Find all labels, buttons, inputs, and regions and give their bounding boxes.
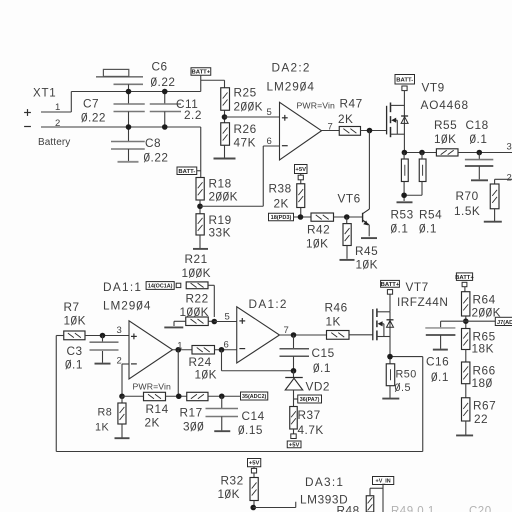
svg-text:10K: 10K — [306, 237, 329, 251]
svg-text:BATT+: BATT+ — [455, 275, 474, 281]
svg-text:VT7: VT7 — [406, 280, 429, 294]
svg-text:R22: R22 — [186, 292, 209, 306]
svg-text:1K: 1K — [95, 422, 110, 434]
svg-text:10K: 10K — [356, 258, 379, 272]
svg-text:10K: 10K — [218, 487, 241, 501]
svg-text:10K: 10K — [64, 314, 87, 328]
svg-text:1: 1 — [177, 340, 182, 351]
svg-text:LM2904: LM2904 — [103, 299, 151, 313]
svg-text:C20: C20 — [469, 506, 492, 512]
svg-text:10K: 10K — [434, 132, 457, 146]
svg-text:0.1: 0.1 — [391, 222, 409, 236]
svg-text:35(ADC2): 35(ADC2) — [242, 394, 266, 400]
svg-text:6: 6 — [224, 340, 229, 351]
svg-text:IRFZ44N: IRFZ44N — [397, 295, 448, 309]
svg-text:6: 6 — [267, 136, 272, 147]
svg-text:VD2: VD2 — [306, 380, 330, 394]
svg-text:PWR=Vin: PWR=Vin — [297, 101, 336, 111]
svg-text:180: 180 — [472, 376, 493, 390]
svg-text:DA1:2: DA1:2 — [249, 297, 288, 311]
svg-text:Battery: Battery — [38, 137, 70, 148]
svg-text:R38: R38 — [269, 182, 292, 196]
svg-text:36(PA7): 36(PA7) — [300, 397, 320, 403]
svg-text:2: 2 — [117, 356, 122, 367]
svg-text:R67: R67 — [473, 399, 496, 413]
svg-text:R48: R48 — [337, 504, 360, 512]
svg-text:R8: R8 — [98, 407, 113, 419]
svg-text:1K: 1K — [326, 315, 341, 329]
svg-text:2K: 2K — [274, 197, 289, 211]
svg-text:+5V: +5V — [249, 461, 260, 467]
svg-text:R18: R18 — [209, 177, 232, 191]
svg-text:R47: R47 — [340, 97, 363, 111]
svg-text:+5V: +5V — [295, 167, 306, 173]
svg-text:R25: R25 — [234, 86, 257, 100]
svg-text:C18: C18 — [466, 118, 489, 132]
svg-text:R53: R53 — [391, 208, 414, 222]
svg-text:2: 2 — [55, 118, 60, 129]
svg-text:R50: R50 — [396, 369, 417, 381]
svg-text:+5V: +5V — [289, 442, 300, 448]
svg-text:R21: R21 — [185, 252, 208, 266]
svg-text:VT6: VT6 — [338, 192, 361, 206]
svg-text:33K: 33K — [209, 226, 232, 240]
svg-text:2: 2 — [507, 173, 512, 184]
svg-text:4.7K: 4.7K — [298, 423, 324, 437]
svg-text:0.1: 0.1 — [431, 370, 449, 384]
svg-text:0.1: 0.1 — [313, 361, 331, 375]
svg-text:R17: R17 — [180, 406, 203, 420]
svg-text:3: 3 — [117, 325, 122, 336]
svg-text:18K: 18K — [472, 342, 495, 356]
svg-text:10K: 10K — [195, 368, 218, 382]
svg-text:2K: 2K — [338, 112, 353, 126]
svg-text:0.1: 0.1 — [65, 358, 83, 372]
svg-text:3: 3 — [507, 142, 512, 153]
svg-text:R45: R45 — [355, 244, 378, 258]
svg-text:DA1:1: DA1:1 — [103, 280, 142, 294]
svg-text:DA2:2: DA2:2 — [272, 61, 311, 75]
svg-text:BATT+: BATT+ — [192, 70, 211, 76]
svg-text:C15: C15 — [312, 346, 335, 360]
svg-text:14(OC1A): 14(OC1A) — [148, 283, 173, 289]
svg-text:200K: 200K — [209, 190, 239, 204]
svg-text:2K: 2K — [145, 416, 160, 430]
svg-text:C8: C8 — [145, 136, 161, 150]
svg-text:1.5K: 1.5K — [454, 204, 480, 218]
svg-text:AO4468: AO4468 — [421, 98, 469, 112]
svg-text:R70: R70 — [456, 189, 479, 203]
svg-text:R46: R46 — [325, 301, 348, 315]
svg-text:R32: R32 — [221, 474, 244, 488]
svg-text:VT9: VT9 — [422, 81, 445, 95]
svg-text:R26: R26 — [234, 122, 257, 136]
svg-text:BATT-: BATT- — [396, 77, 413, 83]
svg-text:18(PD3): 18(PD3) — [271, 215, 292, 221]
svg-text:R7: R7 — [64, 300, 80, 314]
svg-text:PWR=Vin: PWR=Vin — [133, 381, 172, 391]
svg-text:C16: C16 — [426, 355, 449, 369]
svg-text:C7: C7 — [83, 97, 99, 111]
svg-text:1: 1 — [55, 102, 60, 113]
svg-text:200K: 200K — [472, 306, 502, 320]
svg-text:0.1: 0.1 — [470, 132, 488, 146]
svg-text:R49 0.1: R49 0.1 — [391, 506, 435, 512]
svg-text:22: 22 — [474, 412, 488, 426]
svg-text:5: 5 — [225, 312, 230, 323]
svg-text:100K: 100K — [182, 266, 212, 280]
svg-text:+V_IN: +V_IN — [376, 478, 391, 484]
svg-text:R64: R64 — [473, 293, 496, 307]
svg-text:7: 7 — [284, 325, 289, 336]
svg-text:200K: 200K — [234, 100, 264, 114]
svg-text:C14: C14 — [242, 409, 265, 423]
svg-text:LM2904: LM2904 — [267, 80, 315, 94]
svg-text:R55: R55 — [434, 118, 457, 132]
svg-text:0.1: 0.1 — [419, 222, 437, 236]
svg-text:C3: C3 — [67, 344, 83, 358]
svg-text:2.2: 2.2 — [184, 108, 202, 122]
svg-text:R37: R37 — [298, 408, 321, 422]
svg-text:R14: R14 — [146, 402, 169, 416]
svg-text:XT1: XT1 — [33, 88, 57, 100]
svg-text:BATT-: BATT- — [178, 169, 195, 175]
svg-text:C6: C6 — [152, 60, 168, 74]
svg-text:R54: R54 — [419, 208, 442, 222]
svg-text:5: 5 — [267, 107, 272, 118]
svg-text:47K: 47K — [234, 136, 257, 150]
svg-text:BATT+: BATT+ — [381, 282, 400, 288]
svg-text:J7(AD: J7(AD — [497, 320, 512, 326]
svg-text:DA3:1: DA3:1 — [305, 475, 344, 489]
svg-text:R42: R42 — [307, 223, 330, 237]
